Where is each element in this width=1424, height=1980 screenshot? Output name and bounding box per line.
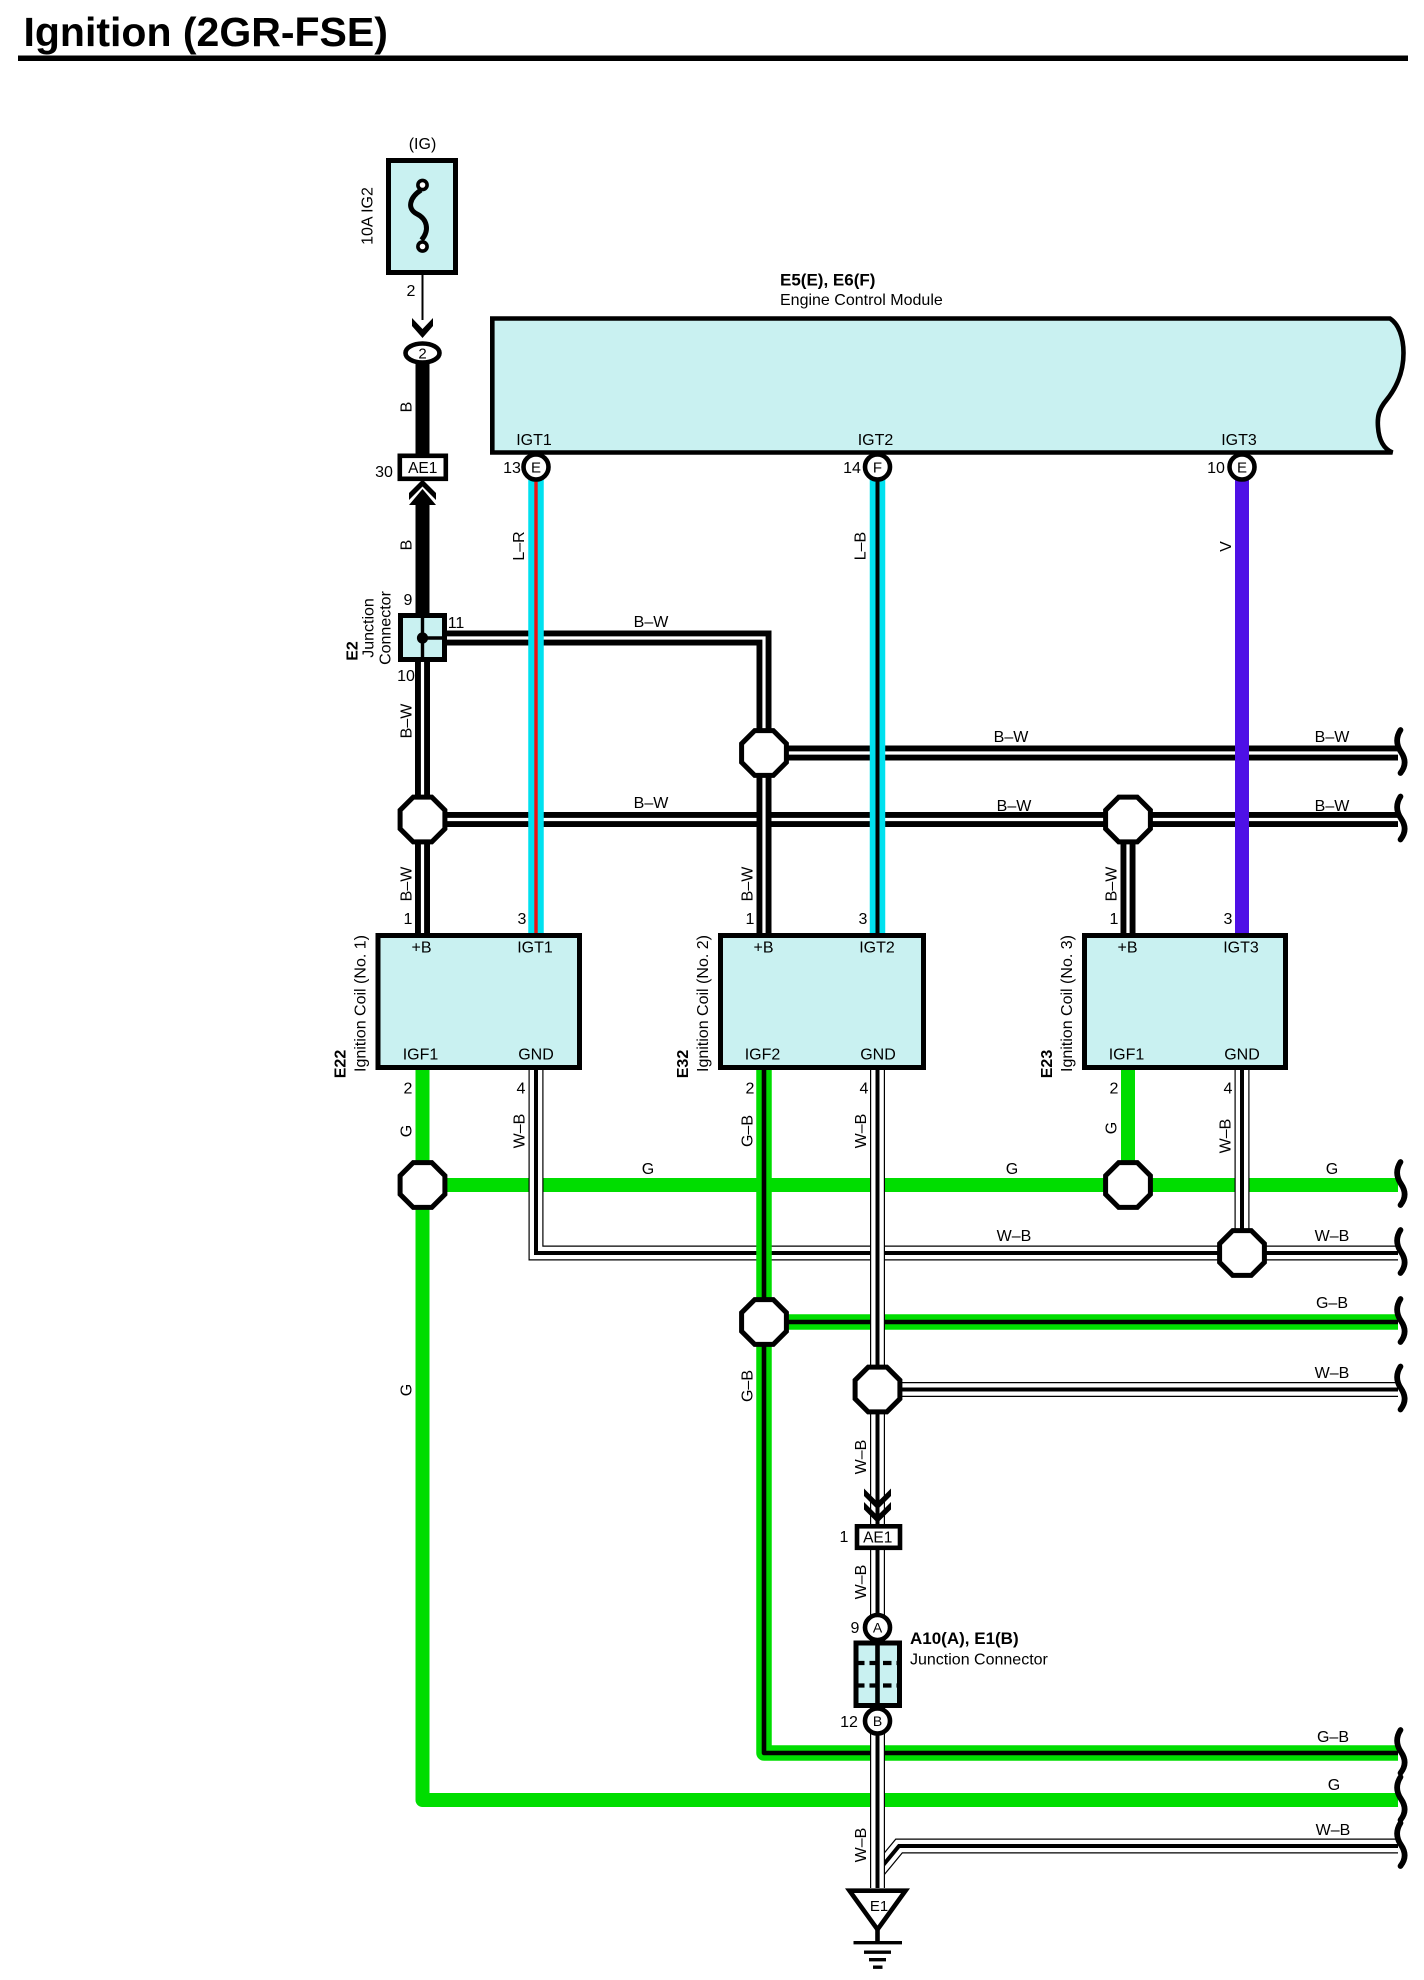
wire B-W row from node (764,753) to right break bbox=[764, 746, 1398, 761]
svg-text:G–B: G–B bbox=[740, 1370, 757, 1402]
svg-text:4: 4 bbox=[860, 1081, 869, 1098]
break mark W-B y1846 bbox=[1397, 1823, 1405, 1866]
svg-text:L–B: L–B bbox=[853, 532, 870, 560]
break mark G-B y1321 bbox=[1397, 1299, 1405, 1342]
break mark G-B y1752 bbox=[1397, 1730, 1405, 1773]
node junction octagon (1128,819) bbox=[1106, 797, 1151, 842]
svg-text:IGT3: IGT3 bbox=[1223, 940, 1259, 957]
title underline bbox=[18, 56, 1408, 62]
svg-text:B–W: B–W bbox=[740, 866, 757, 902]
svg-text:11: 11 bbox=[448, 615, 465, 632]
svg-text:2: 2 bbox=[404, 1081, 413, 1098]
svg-text:G: G bbox=[1104, 1122, 1121, 1134]
ignition coil E23 box bbox=[1085, 936, 1286, 1068]
node junction octagon (1242,1253) bbox=[1220, 1231, 1265, 1276]
svg-text:4: 4 bbox=[1224, 1081, 1233, 1098]
svg-text:10: 10 bbox=[1207, 460, 1225, 477]
svg-text:IGT2: IGT2 bbox=[858, 432, 894, 449]
svg-text:IGF1: IGF1 bbox=[403, 1047, 439, 1064]
pin circle A bbox=[865, 1615, 890, 1640]
wire B from arrow to junction E2 bbox=[416, 503, 430, 614]
ECM pin 10 circle E bbox=[1230, 455, 1255, 480]
svg-text:B–W: B–W bbox=[997, 798, 1033, 815]
svg-text:Ignition Coil (No. 3): Ignition Coil (No. 3) bbox=[1059, 935, 1076, 1072]
wire W-B branch with dogleg to bottom right break bbox=[878, 1846, 1399, 1872]
svg-text:Engine Control Module: Engine Control Module bbox=[780, 292, 943, 309]
wire G-B from coil2 IGF2 down then right to break bbox=[764, 1070, 1398, 1753]
svg-text:W–B: W–B bbox=[853, 1565, 870, 1600]
wire B-W from junction E2 pin 11 to node at x764 bbox=[447, 638, 764, 753]
wire V from ECM IGT3 pin to coil3 IGT3 bbox=[1235, 467, 1249, 933]
svg-text:E2: E2 bbox=[345, 641, 362, 661]
svg-text:3: 3 bbox=[1224, 911, 1233, 928]
break mark B-W y753 bbox=[1397, 730, 1405, 773]
svg-text:GND: GND bbox=[860, 1047, 896, 1064]
pin circle B bbox=[865, 1709, 890, 1734]
ground E1 symbol bbox=[850, 1891, 906, 1968]
down arrows into AE1 (1) bbox=[864, 1489, 891, 1510]
svg-text:4: 4 bbox=[517, 1081, 526, 1098]
wire B-W from node (1128,819) down to coil3 +B bbox=[1121, 820, 1136, 934]
svg-text:G: G bbox=[1006, 1161, 1018, 1178]
svg-text:B: B bbox=[873, 1713, 882, 1729]
svg-text:10A IG2: 10A IG2 bbox=[360, 187, 377, 245]
svg-text:IGT1: IGT1 bbox=[517, 940, 553, 957]
svg-text:E32: E32 bbox=[675, 1050, 692, 1079]
wire W-B from coil1 GND down then right to break bbox=[536, 1070, 1398, 1253]
svg-text:E: E bbox=[531, 460, 541, 477]
svg-text:Ignition Coil (No. 2): Ignition Coil (No. 2) bbox=[695, 935, 712, 1072]
svg-text:IGF2: IGF2 bbox=[745, 1047, 781, 1064]
svg-text:3: 3 bbox=[518, 911, 527, 928]
node junction octagon (422,819) bbox=[400, 797, 445, 842]
break mark G y1800 bbox=[1397, 1777, 1405, 1820]
svg-text:Junction: Junction bbox=[361, 598, 378, 658]
break mark G y1185 bbox=[1397, 1162, 1405, 1205]
svg-text:30: 30 bbox=[375, 464, 393, 481]
svg-text:1: 1 bbox=[840, 1529, 849, 1546]
svg-text:B–W: B–W bbox=[1315, 729, 1351, 746]
wire from fuse pin 2 down to connector arrow bbox=[422, 250, 424, 320]
svg-text:V: V bbox=[1218, 541, 1235, 552]
svg-text:A10(A), E1(B): A10(A), E1(B) bbox=[910, 1629, 1019, 1648]
wire G-B row from node (764,1321) to right break bbox=[764, 1314, 1398, 1330]
svg-text:Ignition (2GR-FSE): Ignition (2GR-FSE) bbox=[24, 9, 388, 55]
svg-text:W–B: W–B bbox=[853, 1440, 870, 1475]
svg-text:Junction Connector: Junction Connector bbox=[910, 1652, 1049, 1669]
svg-text:+B: +B bbox=[753, 940, 773, 957]
svg-text:(IG): (IG) bbox=[409, 136, 437, 153]
junction connector A10(A) E1(B) box bbox=[856, 1641, 900, 1709]
svg-text:E: E bbox=[1237, 460, 1247, 477]
ignition coil E22 box bbox=[378, 936, 580, 1068]
svg-text:3: 3 bbox=[859, 911, 868, 928]
fuse 10A IG2 box bbox=[389, 161, 456, 273]
svg-text:2: 2 bbox=[746, 1081, 755, 1098]
wire B-W from node (764,753) down to coil2 +B bbox=[757, 753, 772, 933]
svg-text:IGT3: IGT3 bbox=[1221, 432, 1257, 449]
svg-text:G–B: G–B bbox=[1317, 1729, 1349, 1746]
svg-text:W–B: W–B bbox=[512, 1114, 529, 1149]
svg-text:G: G bbox=[399, 1125, 416, 1137]
up arrow into AE1 bbox=[409, 480, 436, 501]
break mark W-B y1253 bbox=[1397, 1230, 1405, 1273]
ignition coil E32 box bbox=[721, 936, 924, 1068]
svg-text:G: G bbox=[1326, 1161, 1338, 1178]
wire W-B from coil3 GND down to node (1242,1253) bbox=[1235, 1070, 1250, 1253]
svg-text:13: 13 bbox=[503, 460, 521, 477]
svg-text:2: 2 bbox=[1110, 1081, 1119, 1098]
svg-text:B–W: B–W bbox=[994, 729, 1030, 746]
svg-text:W–B: W–B bbox=[853, 1828, 870, 1863]
node junction octagon (877,1389) bbox=[855, 1367, 900, 1412]
svg-text:9: 9 bbox=[404, 592, 413, 609]
wire L-B from ECM IGT2 pin to coil2 IGT2 bbox=[870, 467, 886, 933]
svg-text:IGT2: IGT2 bbox=[859, 940, 895, 957]
svg-text:B: B bbox=[399, 402, 416, 413]
svg-text:W–B: W–B bbox=[1218, 1119, 1235, 1154]
svg-text:W–B: W–B bbox=[1315, 1365, 1350, 1382]
svg-text:G: G bbox=[1328, 1777, 1340, 1794]
svg-text:E1: E1 bbox=[870, 1898, 888, 1915]
svg-text:W–B: W–B bbox=[853, 1114, 870, 1149]
fuse element symbol bbox=[411, 180, 428, 251]
svg-text:10: 10 bbox=[397, 668, 415, 685]
svg-text:14: 14 bbox=[843, 460, 861, 477]
svg-text:E22: E22 bbox=[333, 1050, 350, 1079]
wire G row from node (422,1185) through node (1128,1185) to right break bbox=[423, 1178, 1399, 1192]
svg-text:+B: +B bbox=[411, 940, 431, 957]
svg-text:9: 9 bbox=[851, 1620, 860, 1637]
break mark W-B y1389 bbox=[1397, 1367, 1405, 1410]
svg-text:G: G bbox=[399, 1384, 416, 1396]
svg-text:A: A bbox=[873, 1620, 883, 1636]
wire W-B from coil2 GND down to ground E1 bbox=[870, 1070, 885, 1888]
svg-text:G–B: G–B bbox=[1316, 1295, 1348, 1312]
svg-text:E5(E), E6(F): E5(E), E6(F) bbox=[780, 271, 875, 290]
node junction octagon (764,753) bbox=[742, 731, 787, 776]
node junction octagon (764,1321) bbox=[742, 1300, 787, 1345]
wire G from coil3 IGF1 down to node (1128,1185) bbox=[1121, 1070, 1135, 1185]
wire L-R from ECM IGT1 pin to coil1 IGT1 bbox=[528, 467, 544, 933]
ECM pin 13 circle E bbox=[524, 455, 549, 480]
svg-text:B–W: B–W bbox=[1104, 866, 1121, 902]
svg-text:B–W: B–W bbox=[399, 866, 416, 902]
connector AE1 (30) box bbox=[400, 456, 446, 479]
svg-text:AE1: AE1 bbox=[863, 1530, 892, 1547]
wire G from coil1 IGF1 down and right to break bbox=[423, 1070, 1399, 1800]
svg-text:1: 1 bbox=[404, 911, 413, 928]
svg-text:1: 1 bbox=[1110, 911, 1119, 928]
svg-text:Connector: Connector bbox=[378, 590, 395, 664]
wire B-W from junction E2 pin 10 down through node (422,819) to coil1 +B bbox=[415, 662, 430, 933]
svg-text:AE1: AE1 bbox=[408, 460, 437, 477]
svg-text:F: F bbox=[873, 460, 882, 477]
svg-text:1: 1 bbox=[746, 911, 755, 928]
svg-text:Ignition Coil (No. 1): Ignition Coil (No. 1) bbox=[353, 935, 370, 1072]
svg-text:B–W: B–W bbox=[1315, 798, 1351, 815]
wire B-W row from node (422,819) through node (1128,819) to right break bbox=[423, 812, 1399, 827]
svg-text:GND: GND bbox=[1224, 1047, 1260, 1064]
svg-text:W–B: W–B bbox=[1316, 1822, 1351, 1839]
svg-text:2: 2 bbox=[407, 283, 416, 300]
wire W-B row from node (877,1389) to right break bbox=[878, 1382, 1399, 1397]
svg-text:E23: E23 bbox=[1039, 1050, 1056, 1079]
svg-text:GND: GND bbox=[518, 1047, 554, 1064]
connector arrow into oval 2 bbox=[412, 318, 433, 338]
svg-text:L–R: L–R bbox=[511, 531, 528, 560]
oval terminal 2 bbox=[406, 344, 440, 363]
svg-text:IGF1: IGF1 bbox=[1109, 1047, 1145, 1064]
svg-text:+B: +B bbox=[1117, 940, 1137, 957]
node junction octagon (422,1185) bbox=[400, 1163, 445, 1208]
svg-text:12: 12 bbox=[840, 1714, 858, 1731]
ECM E5(E) E6(F) Engine Control Module box bbox=[492, 319, 1403, 453]
svg-text:G–B: G–B bbox=[740, 1115, 757, 1147]
break mark B-W y819 bbox=[1397, 797, 1405, 840]
svg-text:W–B: W–B bbox=[997, 1228, 1032, 1245]
ECM pin 14 circle F bbox=[865, 455, 890, 480]
svg-text:B: B bbox=[399, 540, 416, 551]
wire B from oval 2 to AE1 bbox=[416, 363, 430, 455]
svg-text:B–W: B–W bbox=[634, 614, 670, 631]
svg-text:2: 2 bbox=[418, 346, 426, 363]
svg-text:G: G bbox=[642, 1161, 654, 1178]
svg-text:IGT1: IGT1 bbox=[516, 432, 552, 449]
svg-text:B–W: B–W bbox=[399, 703, 416, 739]
node junction octagon (1128,1185) bbox=[1106, 1163, 1151, 1208]
svg-text:W–B: W–B bbox=[1315, 1228, 1350, 1245]
connector AE1 (1) box bbox=[857, 1526, 900, 1548]
junction connector E2 box bbox=[401, 615, 446, 660]
svg-text:B–W: B–W bbox=[634, 795, 670, 812]
